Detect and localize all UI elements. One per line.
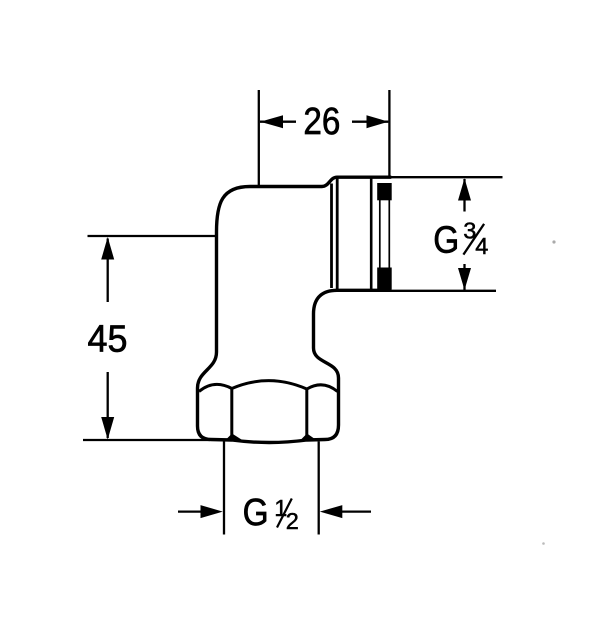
- svg-text:G: G: [433, 219, 459, 261]
- svg-text:4: 4: [475, 233, 488, 259]
- svg-text:45: 45: [88, 318, 128, 360]
- svg-text:26: 26: [303, 101, 340, 143]
- svg-text:2: 2: [286, 508, 299, 534]
- svg-text:G: G: [243, 492, 269, 534]
